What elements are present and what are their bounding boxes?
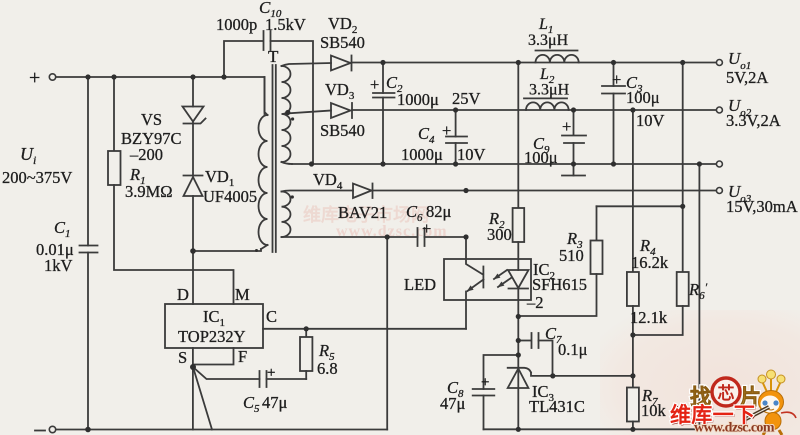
svg-text:1.5kV: 1.5kV xyxy=(265,15,306,34)
svg-text:0.1μ: 0.1μ xyxy=(558,340,588,359)
svg-text:+: + xyxy=(29,67,40,89)
svg-text:25V: 25V xyxy=(452,89,481,108)
svg-text:1000μ: 1000μ xyxy=(397,90,439,109)
svg-text:D: D xyxy=(177,285,189,304)
svg-text:+: + xyxy=(442,121,451,140)
svg-text:1kV: 1kV xyxy=(44,256,73,275)
svg-text:F: F xyxy=(238,347,247,366)
svg-text:1000μ: 1000μ xyxy=(401,145,443,164)
svg-text:100μ: 100μ xyxy=(626,88,660,107)
svg-text:SFH615: SFH615 xyxy=(532,275,587,294)
svg-text:TL431C: TL431C xyxy=(529,397,585,416)
svg-text:SB540: SB540 xyxy=(320,33,365,52)
svg-text:16.2k: 16.2k xyxy=(631,253,669,272)
svg-text:5V,2A: 5V,2A xyxy=(726,68,768,87)
svg-text:10k: 10k xyxy=(641,401,667,420)
svg-text:+: + xyxy=(562,117,571,136)
svg-text:10V: 10V xyxy=(636,111,665,130)
svg-text:芯: 芯 xyxy=(718,383,735,403)
svg-text:3.3μH: 3.3μH xyxy=(528,32,569,49)
svg-text:LED: LED xyxy=(404,275,436,294)
svg-text:–200: –200 xyxy=(129,145,163,164)
svg-text:–2: –2 xyxy=(526,293,544,312)
svg-text:200~375V: 200~375V xyxy=(2,168,72,187)
svg-text:6.8: 6.8 xyxy=(317,359,338,378)
svg-text:10V: 10V xyxy=(457,145,486,164)
svg-text:VS: VS xyxy=(141,110,162,129)
svg-text:TOP232Y: TOP232Y xyxy=(178,327,246,346)
svg-text:15V,30mA: 15V,30mA xyxy=(726,197,798,216)
svg-text:M: M xyxy=(235,285,250,304)
svg-text:C: C xyxy=(266,307,277,326)
svg-text:S: S xyxy=(178,348,187,367)
svg-text:BAV21: BAV21 xyxy=(338,203,387,222)
svg-text:+: + xyxy=(422,219,431,238)
svg-text:www.dzsc.com: www.dzsc.com xyxy=(694,421,775,435)
svg-text:+: + xyxy=(267,365,275,381)
svg-text:47μ: 47μ xyxy=(262,393,288,412)
svg-text:+: + xyxy=(612,70,621,89)
svg-text:47μ: 47μ xyxy=(440,394,466,413)
svg-text:+: + xyxy=(370,75,379,94)
svg-text:300: 300 xyxy=(487,225,512,244)
svg-text:12.1k: 12.1k xyxy=(630,308,668,327)
svg-text:3.3V,2A: 3.3V,2A xyxy=(726,111,781,130)
svg-text:UF4005: UF4005 xyxy=(203,187,257,206)
svg-text:T: T xyxy=(268,47,279,66)
svg-text:1000p: 1000p xyxy=(216,15,257,34)
svg-text:3.3μH: 3.3μH xyxy=(529,82,570,99)
svg-text:510: 510 xyxy=(559,246,584,265)
svg-text:3.9MΩ: 3.9MΩ xyxy=(125,182,173,201)
svg-text:+: + xyxy=(481,375,489,391)
svg-text:100μ: 100μ xyxy=(524,148,558,167)
svg-text:SB540: SB540 xyxy=(320,121,365,140)
